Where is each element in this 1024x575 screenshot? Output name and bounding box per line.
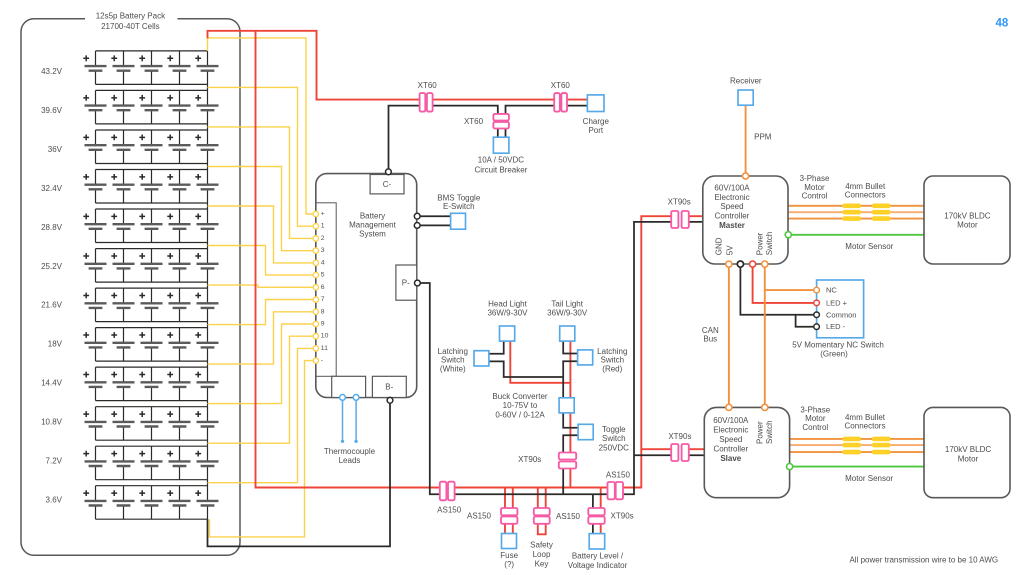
- svg-text:System: System: [359, 229, 386, 238]
- svg-text:Toggle: Toggle: [602, 425, 626, 434]
- svg-text:170kV BLDC: 170kV BLDC: [944, 211, 990, 220]
- svg-text:(White): (White): [440, 364, 466, 373]
- wire: balance sense tap 1 to BMS pin 1: [208, 87, 314, 226]
- svg-text:-: -: [321, 357, 323, 364]
- svg-text:Motor: Motor: [804, 183, 825, 192]
- svg-text:CAN: CAN: [702, 326, 719, 335]
- svg-text:8: 8: [321, 308, 325, 315]
- svg-text:10-75V to: 10-75V to: [503, 401, 538, 410]
- wire: latching switch (white) return to tail junction: [489, 361, 563, 377]
- svg-text:Tail Light: Tail Light: [551, 300, 583, 309]
- svg-text:Latching: Latching: [597, 347, 627, 356]
- BMS pin +: [313, 211, 318, 216]
- svg-text:7: 7: [321, 296, 325, 303]
- svg-text:Switch: Switch: [602, 434, 626, 443]
- svg-text:43.2V: 43.2V: [41, 67, 63, 76]
- svg-text:E-Switch: E-Switch: [443, 202, 475, 211]
- motor 2: 170kV BLDC (slave): [924, 407, 1010, 497]
- connector XT60 #1: [420, 93, 433, 112]
- master PPM pin: [743, 173, 749, 179]
- receiver: [738, 90, 753, 105]
- battery group 7 (21.6V) : 5 parallel cells: [83, 288, 218, 328]
- wire: balance sense tap 9 to BMS pin 9: [208, 324, 314, 404]
- svg-text:39.6V: 39.6V: [41, 106, 63, 115]
- svg-text:170kV BLDC: 170kV BLDC: [945, 445, 991, 454]
- wire: negative tap to slave ESC: [634, 454, 704, 456]
- buck converter: [559, 398, 574, 413]
- svg-text:6: 6: [321, 284, 325, 291]
- svg-text:Fuse: Fuse: [500, 551, 518, 560]
- svg-text:5V: 5V: [726, 245, 735, 255]
- svg-text:PPM: PPM: [754, 132, 772, 141]
- wire: balance sense tap 8 to BMS pin 8: [208, 312, 314, 364]
- wire: master motor sensor (green): [788, 234, 924, 236]
- svg-text:3: 3: [321, 247, 325, 254]
- svg-text:10: 10: [321, 333, 329, 340]
- svg-text:60V/100A: 60V/100A: [713, 416, 749, 425]
- wire: balance sense tap 3 to BMS pin 3: [208, 167, 314, 251]
- BMS pin 4: [313, 260, 318, 265]
- svg-text:XT60: XT60: [418, 81, 438, 90]
- connector XT90s (lighting): [559, 453, 576, 469]
- svg-text:36W/9-30V: 36W/9-30V: [487, 308, 528, 317]
- svg-text:AS150: AS150: [606, 471, 631, 480]
- wire: pack positive (red) to XT60 chain and charge port: [208, 31, 588, 100]
- svg-text:NC: NC: [826, 286, 837, 295]
- wire: battery indicator red leg: [600, 488, 602, 534]
- wire: slave 3-phase motor leads: [790, 438, 924, 440]
- battery group 4 (32.4V) : 5 parallel cells: [83, 170, 218, 210]
- svg-text:1: 1: [321, 223, 325, 230]
- svg-text:12s5p Battery Pack: 12s5p Battery Pack: [96, 12, 166, 21]
- BMS B- terminal: [372, 376, 406, 397]
- svg-text:Receiver: Receiver: [730, 77, 762, 86]
- switch pin Common: [814, 312, 820, 318]
- wire: balance sense tap 2 to BMS pin 2: [208, 127, 314, 238]
- svg-text:AS150: AS150: [467, 511, 492, 520]
- wire: balance sense tap 7 to BMS pin 7: [208, 300, 314, 325]
- switch pin LED-: [814, 324, 820, 330]
- wire: master ESC to switch LED+ (red): [753, 264, 817, 303]
- svg-text:Circuit Breaker: Circuit Breaker: [474, 165, 527, 174]
- svg-text:21700-40T Cells: 21700-40T Cells: [101, 22, 160, 31]
- connector XT90s (slave ESC): [671, 444, 689, 461]
- wire: CAN bus master to slave: [728, 264, 730, 404]
- toggle switch 250VDC: [578, 424, 593, 439]
- svg-text:Management: Management: [349, 220, 396, 229]
- svg-text:C-: C-: [383, 180, 392, 189]
- wire: balance sense tap 10 to BMS pin 10: [208, 336, 314, 443]
- svg-text:Motor: Motor: [958, 454, 979, 463]
- wire: head light black lead into latching switch (white): [489, 341, 504, 354]
- wire: balance sense tap 4 to BMS pin 4: [208, 206, 314, 263]
- svg-text:25.2V: 25.2V: [41, 262, 63, 271]
- master motor sensor pin: [785, 232, 791, 238]
- svg-text:XT90s: XT90s: [668, 198, 691, 207]
- svg-text:Switch: Switch: [441, 356, 465, 365]
- svg-text:P-: P-: [402, 278, 410, 287]
- wire: tail light red riser through buck converter and XT90s to bottom bus: [569, 341, 571, 487]
- wire: main positive feed down left side, along bottom bus, up to master ESC: [256, 31, 703, 488]
- wire: balance sense tap + (top) to BMS pin +: [208, 38, 314, 214]
- BMS pin 2: [313, 236, 318, 241]
- svg-text:Motor Sensor: Motor Sensor: [845, 242, 893, 251]
- wire: breaker output to charge port (black): [506, 106, 588, 138]
- connector AS150 #3 (safety loop key): [534, 508, 550, 524]
- connector XT60 #3 (to breaker): [493, 114, 509, 129]
- charge port: [587, 95, 604, 112]
- battery group 3 (36V) : 5 parallel cells: [83, 130, 218, 170]
- BMS pin 1: [313, 224, 318, 229]
- wire: 5V momentary switch common/LED- (black): [740, 264, 816, 327]
- svg-text:5: 5: [321, 272, 325, 279]
- battery pack enclosure: [21, 19, 240, 556]
- connector XT60 #2: [554, 93, 567, 112]
- svg-text:4: 4: [321, 259, 325, 266]
- wire: BMS toggle e-switch leads: [417, 216, 450, 225]
- svg-text:XT90s: XT90s: [518, 455, 541, 464]
- svg-text:32.4V: 32.4V: [41, 184, 63, 193]
- wire: toggle switch return through XT90s to bottom bus: [563, 435, 578, 494]
- 4mm bullet connectors (master): [843, 204, 862, 209]
- svg-text:XT90s: XT90s: [668, 432, 691, 441]
- svg-text:Loop: Loop: [533, 550, 551, 559]
- BMS pin 8: [313, 309, 318, 314]
- svg-text:Thermocouple: Thermocouple: [324, 447, 376, 456]
- svg-text:(Red): (Red): [602, 364, 622, 373]
- BMS: Battery Management System box: [316, 174, 417, 398]
- svg-text:Battery Level /: Battery Level /: [572, 552, 624, 561]
- svg-text:Control: Control: [802, 423, 828, 432]
- svg-text:(?): (?): [504, 560, 514, 569]
- wire: power switch line master to slave, branch to switch NC: [765, 264, 817, 404]
- connector XT90s (master ESC): [671, 211, 689, 228]
- battery group 1 (43.2V) : 5 parallel cells: [83, 51, 218, 91]
- battery group 10 (10.8V) : 5 parallel cells: [83, 407, 218, 447]
- svg-text:Leads: Leads: [339, 456, 361, 465]
- svg-text:XT60: XT60: [464, 117, 484, 126]
- svg-text:All power transmission wire to: All power transmission wire to be 10 AWG: [849, 555, 998, 564]
- battery group 6 (25.2V) : 5 parallel cells: [83, 249, 218, 289]
- svg-text:36W/9-30V: 36W/9-30V: [547, 308, 588, 317]
- BMS C- terminal: [370, 175, 404, 194]
- svg-text:GND: GND: [715, 237, 724, 255]
- svg-text:0-60V / 0-12A: 0-60V / 0-12A: [495, 410, 545, 419]
- connector AS150 #1: [440, 482, 455, 501]
- ESC master box: [703, 176, 788, 264]
- svg-text:Port: Port: [588, 126, 603, 135]
- master bottom pins: GND, 5V, LED+, switch: [726, 261, 732, 267]
- svg-text:AS150: AS150: [556, 512, 581, 521]
- svg-text:XT60: XT60: [551, 81, 571, 90]
- wire: BMS C- riser to breaker (black): [389, 106, 498, 172]
- circuit breaker 10A/50VDC: [493, 137, 509, 153]
- svg-text:Controller: Controller: [713, 445, 748, 454]
- svg-text:Connectors: Connectors: [845, 422, 886, 431]
- BMS balance pin strip: [316, 203, 336, 376]
- svg-text:Key: Key: [535, 559, 549, 568]
- tail light: [560, 326, 575, 341]
- svg-text:Voltage Indicator: Voltage Indicator: [568, 561, 628, 570]
- svg-text:28.8V: 28.8V: [41, 223, 63, 232]
- BMS thermocouple terminal box: [332, 376, 366, 397]
- wire: balance sense tap 5 to BMS pin 5: [208, 246, 314, 276]
- svg-text:Controller: Controller: [715, 211, 750, 220]
- svg-text:Speed: Speed: [720, 202, 743, 211]
- svg-text:Master: Master: [719, 221, 745, 230]
- connector XT90s #2 (battery indicator): [588, 508, 604, 524]
- wire: BMS P- to bottom negative bus and up to master ESC: [420, 222, 702, 494]
- BMS toggle e-switch box: [451, 213, 466, 229]
- fuse: [502, 534, 517, 549]
- switch pin NC: [814, 287, 820, 293]
- svg-text:Charge: Charge: [583, 117, 610, 126]
- svg-text:4mm Bullet: 4mm Bullet: [845, 413, 886, 422]
- svg-text:Bus: Bus: [703, 335, 717, 344]
- svg-text:3-Phase: 3-Phase: [800, 405, 830, 414]
- svg-text:36V: 36V: [48, 145, 63, 154]
- svg-text:Safety: Safety: [530, 541, 553, 550]
- switch pin LED+: [814, 300, 820, 306]
- svg-text:Switch: Switch: [765, 420, 774, 444]
- svg-text:2: 2: [321, 235, 325, 242]
- svg-text:Common: Common: [826, 310, 856, 319]
- svg-text:9: 9: [321, 320, 325, 327]
- svg-text:21.6V: 21.6V: [41, 301, 63, 310]
- svg-text:3.6V: 3.6V: [46, 495, 63, 504]
- svg-text:48: 48: [996, 18, 1009, 30]
- svg-text:5V Momentary NC Switch: 5V Momentary NC Switch: [792, 340, 884, 349]
- battery group 2 (39.6V) : 5 parallel cells: [83, 90, 218, 130]
- svg-text:XT90s: XT90s: [611, 511, 634, 520]
- 4mm bullet connectors (slave): [843, 437, 862, 442]
- svg-text:14.4V: 14.4V: [41, 379, 63, 388]
- BMS toggle e-switch circles: [414, 213, 420, 219]
- svg-text:Motor: Motor: [805, 414, 826, 423]
- BMS P- terminal: [396, 265, 417, 300]
- BMS pin 6: [313, 285, 318, 290]
- wire: slave motor sensor (green): [790, 466, 924, 468]
- battery group 12 (3.6V) : 5 parallel cells: [83, 486, 218, 520]
- svg-text:Connectors: Connectors: [845, 191, 886, 200]
- battery group 8 (18V) : 5 parallel cells: [83, 328, 218, 368]
- slave motor sensor pin: [787, 464, 793, 470]
- BMS pin 11: [313, 346, 318, 351]
- wire: balance sense tap 11 to BMS pin 11: [208, 348, 314, 482]
- svg-text:3-Phase: 3-Phase: [800, 174, 830, 183]
- svg-text:Switch: Switch: [765, 232, 774, 256]
- wire: head light red lead to tail light red riser: [510, 341, 570, 383]
- wire: receiver PPM to master ESC: [745, 105, 747, 173]
- wire: fuse loop legs (red): [505, 488, 513, 534]
- head light: [500, 326, 515, 341]
- wire: master 3-phase motor leads: [788, 205, 924, 207]
- svg-text:Switch: Switch: [601, 356, 625, 365]
- ESC slave box: [704, 407, 789, 497]
- svg-text:Control: Control: [802, 192, 828, 201]
- svg-text:18V: 18V: [48, 340, 63, 349]
- svg-text:Motor Sensor: Motor Sensor: [845, 474, 893, 483]
- svg-text:7.2V: 7.2V: [46, 457, 63, 466]
- wire: pack negative to BMS B-: [208, 403, 391, 546]
- 5V momentary NC switch (green): [817, 280, 864, 338]
- svg-text:Power: Power: [755, 421, 764, 444]
- wire: balance sense tap 6 to BMS pin 6: [208, 285, 314, 287]
- svg-text:AS150: AS150: [437, 505, 462, 514]
- svg-text:(Green): (Green): [820, 349, 848, 358]
- BMS pin 7: [313, 297, 318, 302]
- connector AS150 #2 (fuse): [501, 508, 517, 524]
- svg-text:Buck Converter: Buck Converter: [492, 392, 547, 401]
- wire: safety loop key loop (red): [538, 488, 546, 535]
- slave top pins: [726, 404, 732, 410]
- svg-text:B-: B-: [385, 382, 393, 391]
- svg-text:11: 11: [321, 345, 328, 352]
- BMS pin 5: [313, 272, 318, 277]
- wire: positive tap to slave ESC: [641, 448, 704, 450]
- svg-text:250VDC: 250VDC: [599, 444, 629, 453]
- latching switch (red): [578, 350, 593, 365]
- BMS pin 3: [313, 248, 318, 253]
- wire: tail light black lead into latching switch (red): [563, 341, 577, 353]
- wire: battery indicator black leg: [592, 494, 594, 533]
- svg-text:Motor: Motor: [957, 220, 978, 229]
- wire: balance sense tap - (pack bottom) to BMS pin -: [210, 361, 314, 537]
- battery group 11 (7.2V) : 5 parallel cells: [83, 446, 218, 486]
- connector AS150 #4: [608, 482, 624, 499]
- svg-text:+: +: [321, 211, 325, 218]
- svg-text:Electronic: Electronic: [713, 425, 748, 434]
- thermocouple leads (blue): [343, 400, 357, 440]
- wire: latching switch (red) return through buck to toggle switch: [563, 361, 578, 427]
- svg-text:10A / 50VDC: 10A / 50VDC: [478, 156, 524, 165]
- svg-text:Latching: Latching: [438, 347, 468, 356]
- svg-text:Speed: Speed: [719, 435, 742, 444]
- svg-text:Head Light: Head Light: [488, 300, 527, 309]
- svg-text:10.8V: 10.8V: [41, 418, 63, 427]
- svg-text:60V/100A: 60V/100A: [714, 183, 750, 192]
- latching switch (white): [474, 351, 489, 366]
- battery group 9 (14.4V) : 5 parallel cells: [83, 367, 218, 407]
- battery group 5 (28.8V) : 5 parallel cells: [83, 209, 218, 249]
- svg-text:Power: Power: [756, 232, 765, 255]
- BMS pin 9: [313, 321, 318, 326]
- BMS pin 10: [313, 334, 318, 339]
- svg-text:Electronic: Electronic: [714, 193, 749, 202]
- svg-text:LED +: LED +: [826, 298, 848, 307]
- battery level / voltage indicator: [589, 534, 605, 549]
- svg-text:LED -: LED -: [826, 322, 846, 331]
- svg-text:Slave: Slave: [720, 454, 741, 463]
- BMS pin -: [313, 358, 318, 363]
- svg-text:4mm Bullet: 4mm Bullet: [845, 182, 886, 191]
- motor 1: 170kV BLDC (master): [924, 176, 1010, 264]
